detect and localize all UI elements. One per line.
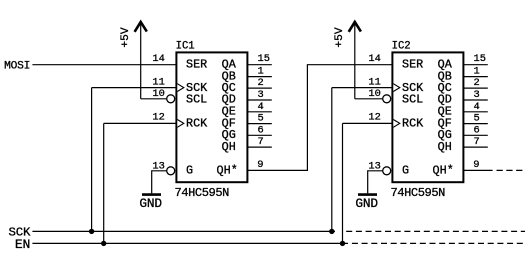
wire IC2 SCK pin 11 vertical drop to SCK bus (331, 88, 333, 232)
IC2 output pin stub QF (pin 5) (463, 123, 487, 125)
IC1 +5V supply arrowhead (135, 22, 147, 32)
IC1 output pin stub QG (pin 6) (247, 134, 271, 136)
wire EN bus dashed continuation (352, 242, 525, 244)
svg-text:QH: QH (438, 140, 452, 154)
svg-text:IC1: IC1 (176, 41, 195, 53)
svg-text:QH*: QH* (217, 164, 238, 178)
IC2 +5V supply stem (354, 23, 356, 99)
wire IC2 SCK pin 11 horizontal (332, 87, 393, 89)
svg-text:9: 9 (257, 159, 263, 171)
svg-text:11: 11 (152, 77, 164, 89)
svg-text:3: 3 (474, 89, 480, 101)
svg-text:G: G (402, 164, 409, 178)
svg-text:+5V: +5V (120, 27, 132, 47)
svg-text:RCK: RCK (402, 116, 424, 130)
svg-text:6: 6 (258, 124, 264, 136)
IC2 output pin stub QH (pin 7) (463, 146, 487, 148)
svg-text:4: 4 (474, 101, 480, 113)
svg-text:74HC595N: 74HC595N (391, 186, 446, 200)
wire IC1 SCK pin 11 vertical drop to SCK bus (91, 88, 93, 232)
IC1 output pin stub QC (pin 2) (247, 87, 271, 89)
svg-text:7: 7 (258, 136, 264, 148)
wire IC1 SCK pin 11 horizontal (92, 87, 177, 89)
IC2 output pin stub QD (pin 3) (463, 99, 487, 101)
svg-text:GND: GND (139, 196, 162, 211)
svg-text:15: 15 (474, 53, 486, 65)
IC IC1 body 74HC595N (176, 52, 247, 182)
IC2 output pin stub QG (pin 6) (463, 134, 487, 136)
svg-text:14: 14 (152, 53, 164, 65)
svg-text:12: 12 (152, 112, 164, 124)
junction IC2 RCK at EN bus (340, 241, 345, 246)
wire IC1 G pin 13 to ground (152, 171, 167, 194)
junction IC1 RCK at EN bus (101, 241, 106, 246)
IC1 output pin stub QF (pin 5) (247, 123, 271, 125)
wire IC1 +5V to SCL pin 10 (141, 98, 167, 100)
IC2 output pin stub QC (pin 2) (463, 87, 487, 89)
wire MOSI to IC1 SER pin 14 (32, 64, 176, 66)
wire IC2 QH* dashed continuation (497, 169, 525, 171)
IC2 inversion bubble pin SCL (383, 95, 391, 103)
svg-text:RCK: RCK (186, 116, 208, 130)
svg-text:15: 15 (258, 53, 270, 65)
wire IC1 QH* pin 9 to IC2 SER pin 14 (247, 65, 392, 171)
IC2 clock marker pin SCK (393, 84, 400, 92)
svg-text:IC2: IC2 (392, 41, 411, 53)
IC2 output pin stub QB (pin 1) (463, 76, 487, 78)
svg-text:74HC595N: 74HC595N (175, 186, 230, 200)
svg-text:1: 1 (258, 66, 264, 78)
IC1 inversion bubble pin G (167, 167, 175, 175)
svg-text:12: 12 (368, 112, 380, 124)
wire IC1 RCK pin 12 vertical drop to EN bus (103, 123, 105, 243)
junction IC1 SCK at SCK bus (89, 229, 94, 234)
wire EN bus solid segment (32, 242, 348, 244)
wire SCK bus solid segment (32, 230, 335, 232)
svg-text:3: 3 (258, 89, 264, 101)
IC1 output pin stub QE (pin 4) (247, 111, 271, 113)
IC2 +5V supply arrowhead (349, 22, 361, 32)
IC1 output pin stub QH (pin 7) (247, 146, 271, 148)
wire IC2 RCK pin 12 horizontal (343, 122, 393, 124)
svg-text:4: 4 (258, 101, 264, 113)
IC1 output pin stub QD (pin 3) (247, 99, 271, 101)
IC2 clock marker pin RCK (393, 120, 400, 128)
svg-text:6: 6 (474, 124, 480, 136)
IC1 inversion bubble pin SCL (167, 95, 175, 103)
IC2 ground symbol bar (358, 193, 377, 196)
IC1 +5V supply stem (140, 23, 142, 99)
IC2 output pin stub QE (pin 4) (463, 111, 487, 113)
svg-text:SCL: SCL (402, 93, 423, 107)
wire IC1 RCK pin 12 horizontal (104, 122, 177, 124)
IC1 ground symbol bar (142, 193, 161, 196)
svg-text:5: 5 (258, 113, 264, 125)
IC2 output pin stub QA (pin 15) (463, 64, 487, 66)
svg-text:2: 2 (474, 77, 480, 89)
svg-text:1: 1 (474, 66, 480, 78)
svg-text:11: 11 (368, 77, 380, 89)
wire IC2 QH* pin 9 stub (463, 169, 492, 171)
junction IC2 SCK at SCK bus (329, 229, 334, 234)
svg-text:SCL: SCL (186, 93, 207, 107)
svg-text:G: G (186, 164, 193, 178)
svg-text:EN: EN (15, 237, 30, 252)
wire IC2 +5V to SCL pin 10 (355, 98, 383, 100)
IC1 clock marker pin RCK (177, 120, 184, 128)
IC1 output pin stub QA (pin 15) (247, 64, 271, 66)
svg-text:7: 7 (474, 136, 480, 148)
svg-text:+5V: +5V (334, 27, 346, 47)
wire IC2 G pin 13 to ground (368, 171, 383, 194)
svg-text:SER: SER (402, 57, 423, 71)
svg-text:5: 5 (474, 113, 480, 125)
svg-text:QH: QH (222, 140, 236, 154)
wire IC2 RCK pin 12 vertical drop to EN bus (342, 123, 344, 243)
svg-text:GND: GND (355, 196, 378, 211)
IC1 output pin stub QB (pin 1) (247, 76, 271, 78)
wire SCK bus dashed continuation (346, 230, 525, 232)
svg-text:2: 2 (258, 77, 264, 89)
svg-text:9: 9 (473, 159, 479, 171)
svg-text:14: 14 (368, 53, 380, 65)
svg-text:MOSI: MOSI (4, 60, 30, 72)
IC2 inversion bubble pin G (383, 167, 391, 175)
IC1 clock marker pin SCK (177, 84, 184, 92)
svg-text:QH*: QH* (433, 164, 454, 178)
IC IC2 body 74HC595N (392, 52, 463, 182)
svg-text:SER: SER (186, 57, 207, 71)
